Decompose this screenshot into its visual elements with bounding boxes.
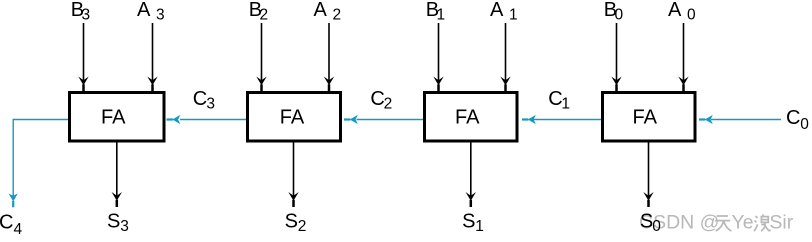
svg-text:FA: FA xyxy=(280,106,305,128)
svg-text:S: S xyxy=(462,210,475,232)
wire input A0 xyxy=(678,23,688,92)
svg-text:A: A xyxy=(490,0,504,21)
svg-text:A: A xyxy=(314,0,328,21)
label B2 xyxy=(249,0,268,24)
svg-text:FA: FA xyxy=(101,106,126,128)
wire carry C1 xyxy=(522,115,601,124)
svg-text:3: 3 xyxy=(156,7,165,24)
svg-text:2: 2 xyxy=(384,96,393,113)
label C3 xyxy=(193,88,215,113)
svg-text:0: 0 xyxy=(652,218,661,235)
label C4 xyxy=(0,212,23,238)
wire input B3 xyxy=(78,23,88,92)
label B0 xyxy=(604,0,624,24)
svg-text:FA: FA xyxy=(633,106,658,128)
label S3 xyxy=(107,210,129,235)
label A2 xyxy=(314,0,342,24)
svg-text:Ye: Ye xyxy=(732,211,754,233)
label C0 xyxy=(786,107,809,133)
label B3 xyxy=(71,0,90,24)
svg-text:1: 1 xyxy=(561,96,570,113)
svg-text:2: 2 xyxy=(260,7,269,24)
full adder FA (bit 2) box xyxy=(248,93,341,142)
wire input A3 xyxy=(147,23,157,92)
svg-text:1: 1 xyxy=(475,218,484,235)
svg-text:1: 1 xyxy=(509,7,518,24)
label A3 xyxy=(137,0,165,24)
label S0 xyxy=(640,210,661,235)
svg-text:4: 4 xyxy=(14,221,23,238)
svg-text:3: 3 xyxy=(206,96,215,113)
label A1 xyxy=(490,0,518,24)
label C1 xyxy=(548,88,570,113)
wire input B1 xyxy=(433,23,443,92)
full adder FA (bit 0) box xyxy=(603,93,696,142)
svg-text:C: C xyxy=(0,212,13,234)
wire carry C0 input xyxy=(699,115,781,124)
svg-text:1: 1 xyxy=(437,7,446,24)
svg-text:A: A xyxy=(137,0,151,21)
svg-text:3: 3 xyxy=(120,218,129,235)
wire input B0 xyxy=(611,23,621,92)
svg-text:S: S xyxy=(285,210,298,232)
wire sum S3 xyxy=(112,143,122,208)
wire sum S2 xyxy=(288,143,298,208)
svg-text:S: S xyxy=(107,210,120,232)
svg-text:3: 3 xyxy=(82,7,91,24)
watermark CSDN @天Ye浪Sir xyxy=(639,211,794,233)
label A0 xyxy=(668,0,696,24)
full adder FA (bit 3) box xyxy=(70,93,165,142)
label B1 xyxy=(426,0,445,24)
svg-text:2: 2 xyxy=(298,218,307,235)
svg-text:Sir: Sir xyxy=(769,211,793,233)
wire carry C4 output xyxy=(9,120,68,208)
wire input A2 xyxy=(324,23,334,92)
label S1 xyxy=(462,210,484,235)
svg-text:0: 0 xyxy=(687,7,696,24)
svg-text:A: A xyxy=(668,0,682,21)
wire sum S1 xyxy=(466,143,476,208)
label C2 xyxy=(370,88,392,113)
wire carry C3 xyxy=(167,115,247,124)
svg-text:C: C xyxy=(786,107,800,129)
svg-text:0: 0 xyxy=(615,7,624,24)
wire sum S0 xyxy=(643,143,653,208)
wire input A1 xyxy=(500,23,510,92)
svg-text:0: 0 xyxy=(800,116,809,133)
svg-text:2: 2 xyxy=(333,7,342,24)
svg-text:FA: FA xyxy=(455,106,480,128)
full adder FA (bit 1) box xyxy=(425,93,518,142)
label S2 xyxy=(285,210,307,235)
wire carry C2 xyxy=(344,115,423,124)
svg-text:C: C xyxy=(193,88,207,110)
wire input B2 xyxy=(256,23,266,92)
